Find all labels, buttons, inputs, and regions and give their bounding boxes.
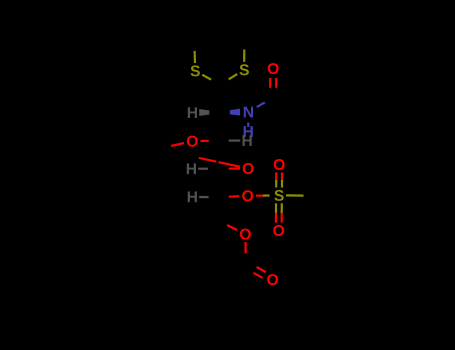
O atom acetal lower (243, 163, 254, 174)
O atom ester (240, 229, 251, 240)
bond S1-ring CH2 (dithiane) (193, 39, 196, 63)
O atom mesylate ester (242, 190, 253, 201)
wedge C2-N (220, 109, 241, 116)
wedge C2-H (199, 109, 219, 116)
bond S1-C1 (dithiane) (202, 75, 220, 85)
bond C5-H (199, 196, 218, 198)
H atom on amide N (244, 126, 253, 137)
N atom amide (244, 107, 253, 118)
O atom ester carbonyl (267, 274, 278, 285)
O atom sulfonyl lower (273, 225, 284, 236)
double bond S=O down (276, 203, 282, 222)
bond S3-ring CH2 (dithiane) (243, 37, 245, 62)
H atom on C4 (187, 163, 196, 174)
bond ring CH2-CH2 top left (invisible) (194, 23, 219, 39)
bond S-CH3 mesyl (286, 194, 321, 197)
bond N-H amide (247, 123, 249, 127)
double bond S=O up (276, 172, 282, 187)
bond C5-O5 mesylate (218, 196, 239, 197)
bond C3-H (217, 140, 240, 142)
H atom on C2 (188, 107, 197, 118)
bond acetal C-O4 (long) (158, 149, 240, 167)
S atom mesyl (274, 190, 283, 201)
double bond C=O acetyl (270, 78, 276, 98)
bond C6-O6 ester (217, 220, 237, 230)
bond O5-S mesyl (256, 194, 270, 196)
H atom on C5 (188, 192, 197, 203)
bond O3-acetal C (158, 143, 184, 149)
bond C3-C4 backbone (invisible) (216, 141, 219, 169)
bond C1-C2 backbone (invisible) (218, 85, 221, 113)
O atom acetal upper (187, 136, 198, 147)
bond C3-O3 (201, 140, 217, 143)
bond N-C carbonyl acetyl (257, 98, 274, 108)
bond ester C-chain (invisible) (222, 265, 246, 280)
S atom dithiane right (240, 64, 249, 75)
O atom sulfonyl upper (274, 159, 285, 170)
bond C4-H (198, 168, 217, 170)
bond C4-C5 backbone (invisible) (216, 169, 219, 198)
bond C4-O4 (218, 168, 240, 170)
bond S3-C1 (dithiane) (220, 74, 237, 84)
double bond ester C=O (244, 262, 266, 278)
O atom acetyl carbonyl (268, 63, 279, 74)
bond ring CH2-CH2 top right (invisible) (219, 23, 244, 37)
S atom dithiane left (191, 65, 200, 76)
bond C2-C3 backbone (invisible) (217, 112, 220, 140)
bond acetyl C-CH3 (invisible) (273, 98, 300, 113)
bond C5-C6 backbone (invisible) (216, 197, 219, 220)
H atom on C3 (243, 135, 252, 146)
bond O6-C ester carbonyl (244, 242, 247, 265)
